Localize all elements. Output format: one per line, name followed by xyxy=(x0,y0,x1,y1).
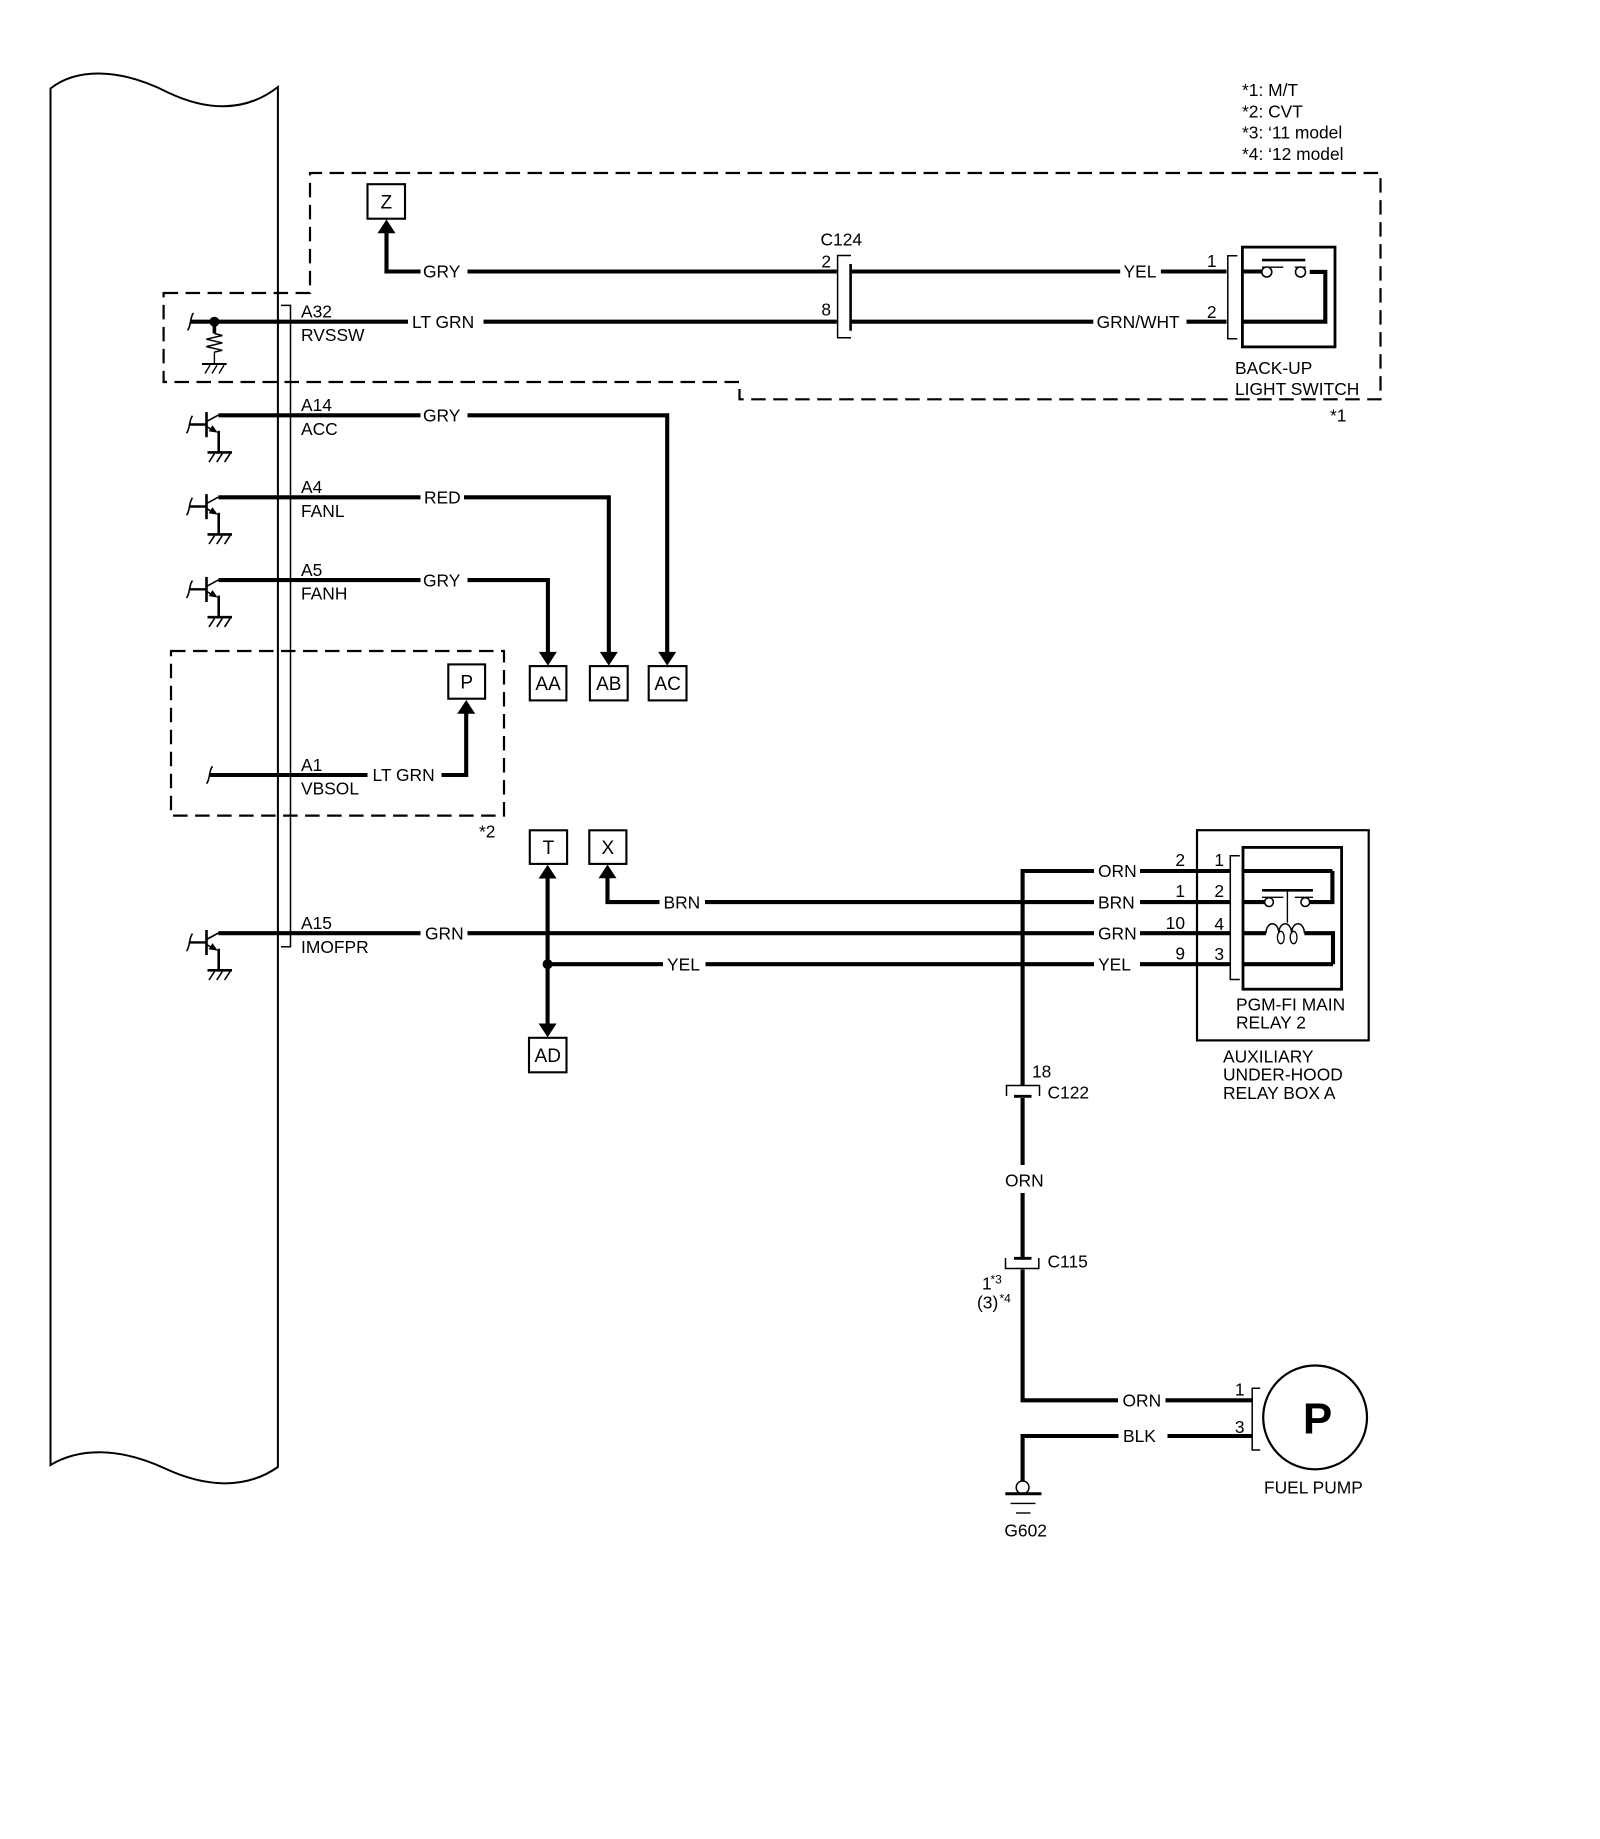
svg-text:2: 2 xyxy=(1207,302,1217,322)
relay coil xyxy=(1243,931,1266,935)
pin bracket (PGM-FI main relay 2) xyxy=(1230,856,1240,980)
connector box T xyxy=(530,830,567,864)
wire GRY (A5 row) xyxy=(218,578,420,582)
driver transistor (A15) xyxy=(187,934,193,951)
svg-text:*2: CVT: *2: CVT xyxy=(1242,101,1303,121)
svg-text:YEL: YEL xyxy=(1098,954,1131,974)
svg-text:X: X xyxy=(602,838,615,859)
ground G602 xyxy=(1016,1481,1029,1494)
connector box AC xyxy=(649,666,687,700)
svg-text:*4: ‘12 model: *4: ‘12 model xyxy=(1242,144,1344,164)
dashed enclosure *1 (M/T variant region) xyxy=(164,173,1381,399)
svg-text:FANL: FANL xyxy=(301,501,345,521)
pin bracket (back-up light switch) xyxy=(1228,256,1238,339)
dashed enclosure *2 (CVT variant region) xyxy=(171,651,504,816)
svg-text:Z: Z xyxy=(380,192,392,213)
svg-text:GRN/WHT: GRN/WHT xyxy=(1097,312,1180,332)
arrow into AA xyxy=(539,652,557,666)
arrow into X xyxy=(599,865,617,879)
svg-text:ORN: ORN xyxy=(1005,1171,1044,1191)
wire RED (A4 to corner) xyxy=(464,497,609,654)
svg-text:T: T xyxy=(543,838,555,859)
svg-text:*2: *2 xyxy=(479,822,495,842)
wire ORN (C115 to pump corner) xyxy=(1023,1270,1118,1401)
svg-text:LT GRN: LT GRN xyxy=(373,765,435,785)
wire GRY (A5 to corner) xyxy=(468,580,548,654)
wire GRY (A14 row) xyxy=(218,413,420,417)
arrow into Z xyxy=(378,220,396,234)
svg-text:A5: A5 xyxy=(301,560,322,580)
svg-text:2: 2 xyxy=(1175,850,1185,870)
svg-text:RELAY BOX A: RELAY BOX A xyxy=(1223,1083,1336,1103)
svg-text:ACC: ACC xyxy=(301,419,338,439)
arrow into AC xyxy=(658,652,676,666)
auxiliary under-hood relay box A (outer) xyxy=(1197,830,1369,1040)
svg-text:A32: A32 xyxy=(301,301,332,321)
wire BLK (pump pin 3 row) xyxy=(1023,1436,1119,1482)
svg-text:A15: A15 xyxy=(301,913,332,933)
connector box AD xyxy=(529,1038,567,1073)
wire GRN (A15 row) xyxy=(218,931,420,935)
reverse switch sensor symbol (A32) xyxy=(188,313,194,330)
svg-text:*1: M/T: *1: M/T xyxy=(1242,80,1298,100)
svg-text:GRY: GRY xyxy=(423,406,461,426)
wire YEL (junction to label) xyxy=(548,962,663,966)
wire LT GRN (A32 row) xyxy=(278,320,408,324)
wire GRN (label to relay) xyxy=(1140,931,1230,935)
svg-text:P: P xyxy=(460,672,473,693)
svg-text:GRN: GRN xyxy=(1098,923,1137,943)
driver transistor (A4) xyxy=(187,498,193,515)
wire LT GRN (A1 to corner) xyxy=(442,712,467,776)
arrow into AD xyxy=(539,1024,557,1038)
svg-text:AUXILIARY: AUXILIARY xyxy=(1223,1046,1314,1066)
arrow into T xyxy=(539,865,557,879)
svg-text:AA: AA xyxy=(535,674,561,695)
connector box AA xyxy=(530,666,567,700)
svg-text:YEL: YEL xyxy=(667,954,700,974)
wire BRN (to relay) xyxy=(705,900,1094,904)
wire down to AD xyxy=(546,964,550,1024)
wire BRN (label to relay) xyxy=(1140,900,1230,904)
wire GRY to Z (corner) xyxy=(384,269,420,273)
svg-text:(3): (3) xyxy=(977,1293,998,1313)
back-up light switch box xyxy=(1242,247,1335,347)
wire GRY (A14 to corner) xyxy=(468,415,668,654)
svg-text:VBSOL: VBSOL xyxy=(301,779,359,799)
svg-text:*1: *1 xyxy=(1330,406,1346,426)
svg-text:BRN: BRN xyxy=(1098,892,1135,912)
svg-text:AB: AB xyxy=(596,674,621,695)
svg-text:FUEL PUMP: FUEL PUMP xyxy=(1264,1477,1363,1497)
svg-text:C122: C122 xyxy=(1048,1083,1090,1103)
svg-text:1: 1 xyxy=(1175,881,1185,901)
svg-text:RVSSW: RVSSW xyxy=(301,325,365,345)
wire RED (A4 row) xyxy=(218,495,420,499)
wire BLK (label to pump pin 3) xyxy=(1168,1434,1253,1438)
svg-text:AC: AC xyxy=(654,674,680,695)
svg-text:ORN: ORN xyxy=(1123,1391,1162,1411)
svg-text:2: 2 xyxy=(821,252,831,272)
connector box AB xyxy=(590,666,628,700)
svg-text:10: 10 xyxy=(1166,913,1185,933)
svg-text:RED: RED xyxy=(424,488,461,508)
svg-text:G602: G602 xyxy=(1004,1521,1047,1541)
wire GRN/WHT (to switch pin 2) xyxy=(852,320,1094,324)
svg-text:BRN: BRN xyxy=(664,892,701,912)
svg-text:1: 1 xyxy=(1207,251,1217,271)
connector C122 xyxy=(1007,1086,1040,1097)
svg-text:LT GRN: LT GRN xyxy=(412,312,474,332)
pin bracket (fuel pump) xyxy=(1252,1388,1260,1450)
wire ORN (C122 down) xyxy=(1021,1098,1025,1165)
wire ORN (relay pin 2 corner) xyxy=(1023,871,1094,1086)
svg-text:A4: A4 xyxy=(301,477,323,497)
svg-text:*4: *4 xyxy=(1000,1292,1012,1306)
fuel pump motor circle xyxy=(1263,1366,1367,1470)
wire ORN (to C115) xyxy=(1021,1193,1025,1260)
svg-text:1: 1 xyxy=(1235,1379,1245,1399)
arrow into P xyxy=(457,700,475,714)
wire ORN (label to relay) xyxy=(1140,869,1230,873)
wire ORN (label to pump pin 1) xyxy=(1166,1398,1253,1402)
svg-text:LIGHT SWITCH: LIGHT SWITCH xyxy=(1235,379,1359,399)
svg-text:FANH: FANH xyxy=(301,584,347,604)
connector box P xyxy=(448,664,485,698)
svg-text:IMOFPR: IMOFPR xyxy=(301,937,369,957)
wire GRY (Z row to C124) xyxy=(468,269,837,273)
svg-text:A14: A14 xyxy=(301,395,332,415)
driver transistor (A14) xyxy=(187,416,193,433)
svg-text:P: P xyxy=(1303,1395,1332,1444)
ECM/PCM connector body (torn-edge column) xyxy=(51,74,278,1484)
svg-text:C115: C115 xyxy=(1048,1252,1088,1272)
ECM pin header bracket (A32-A15) xyxy=(281,305,291,946)
svg-text:*3: *3 xyxy=(991,1273,1003,1287)
svg-text:BACK-UP: BACK-UP xyxy=(1235,358,1312,378)
svg-text:9: 9 xyxy=(1175,944,1185,964)
relay contact circuit xyxy=(1243,869,1332,873)
svg-text:2: 2 xyxy=(1214,881,1224,901)
svg-text:GRY: GRY xyxy=(423,262,461,282)
wire LT GRN (A32 to C124) xyxy=(484,320,837,324)
PGM-FI main relay 2 box xyxy=(1243,847,1342,989)
switch internal circuit xyxy=(1242,269,1262,273)
svg-text:PGM-FI MAIN: PGM-FI MAIN xyxy=(1236,994,1345,1014)
svg-text:3: 3 xyxy=(1214,944,1224,964)
svg-text:ORN: ORN xyxy=(1098,861,1137,881)
connector box Z xyxy=(368,184,406,219)
wire YEL (to relay) xyxy=(706,962,1095,966)
wire GRN (A15 to relay) xyxy=(468,931,1095,935)
svg-text:1: 1 xyxy=(1214,850,1224,870)
wire A1 (pigtail) xyxy=(207,766,213,783)
wire YEL (to switch pin 1) xyxy=(852,269,1120,273)
connector box X xyxy=(589,830,626,864)
wire GRN/WHT (label to pin 2) xyxy=(1187,320,1227,324)
connector C115 xyxy=(1014,1257,1032,1260)
svg-text:3: 3 xyxy=(1235,1417,1245,1437)
svg-text:UNDER-HOOD: UNDER-HOOD xyxy=(1223,1065,1343,1085)
svg-text:18: 18 xyxy=(1032,1061,1051,1081)
wire YEL (label to pin 1) xyxy=(1161,269,1227,273)
driver transistor (A5) xyxy=(187,581,193,598)
svg-text:A1: A1 xyxy=(301,755,322,775)
svg-text:BLK: BLK xyxy=(1123,1426,1156,1446)
svg-text:GRN: GRN xyxy=(425,923,464,943)
junction dot (YEL tap) xyxy=(543,959,553,969)
wire YEL (label to relay) xyxy=(1140,962,1230,966)
svg-text:4: 4 xyxy=(1214,914,1224,934)
svg-text:AD: AD xyxy=(535,1046,561,1067)
svg-text:GRY: GRY xyxy=(423,570,461,590)
svg-text:*3: ‘11 model: *3: ‘11 model xyxy=(1242,123,1342,143)
svg-text:RELAY 2: RELAY 2 xyxy=(1236,1013,1306,1033)
svg-text:YEL: YEL xyxy=(1124,262,1157,282)
svg-text:8: 8 xyxy=(821,300,831,320)
svg-text:C124: C124 xyxy=(821,229,863,249)
arrow into AB xyxy=(600,652,618,666)
